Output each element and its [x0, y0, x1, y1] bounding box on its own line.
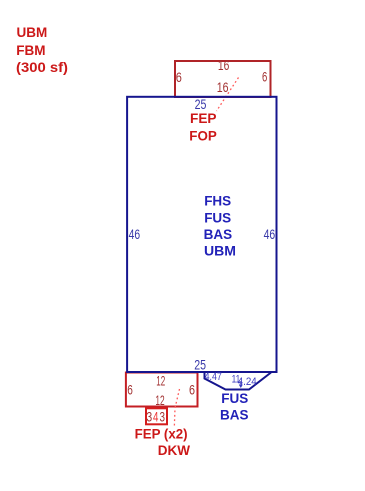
svg-text:6: 6 — [262, 68, 267, 84]
small stoop outline 3x3 — [146, 408, 167, 424]
svg-text:6: 6 — [189, 382, 195, 398]
svg-text:FEP: FEP — [190, 111, 217, 126]
svg-text:16: 16 — [217, 79, 229, 95]
svg-text:FUS: FUS — [204, 211, 231, 226]
svg-text:12: 12 — [156, 372, 165, 388]
svg-text:FBM: FBM — [16, 43, 45, 58]
svg-text:BAS: BAS — [220, 407, 249, 422]
main building outline — [127, 97, 276, 372]
svg-text:(300 sf): (300 sf) — [16, 60, 68, 75]
leader line porch to FEP label — [217, 78, 239, 112]
top porch outline FEP/FOP — [175, 61, 271, 97]
leader line bottom porch to FEP (x2) label — [174, 389, 179, 428]
svg-text:3: 3 — [160, 408, 166, 424]
svg-text:DKW: DKW — [158, 443, 190, 458]
svg-text:6: 6 — [127, 382, 133, 398]
svg-text:25: 25 — [195, 96, 207, 112]
svg-text:6: 6 — [176, 69, 182, 85]
svg-text:46: 46 — [264, 226, 276, 242]
bottom porch outline FEP(x2)/DKW — [126, 373, 198, 407]
svg-text:4.47: 4.47 — [205, 371, 222, 383]
svg-text:FUS: FUS — [221, 391, 248, 406]
svg-text:46: 46 — [129, 226, 141, 242]
svg-text:3: 3 — [146, 408, 152, 424]
svg-text:4: 4 — [153, 409, 159, 425]
svg-text:UBM: UBM — [17, 25, 48, 40]
svg-text:16: 16 — [218, 57, 230, 73]
svg-text:FEP (x2): FEP (x2) — [135, 427, 188, 442]
svg-text:UBM: UBM — [204, 243, 236, 258]
svg-text:FOP: FOP — [189, 128, 217, 143]
rear addition outline FUS/BAS — [205, 373, 272, 390]
svg-text:FHS: FHS — [204, 194, 231, 209]
svg-text:BAS: BAS — [204, 227, 233, 242]
svg-text:12: 12 — [155, 392, 164, 408]
leader arrow under dim 4.24 — [239, 381, 242, 387]
